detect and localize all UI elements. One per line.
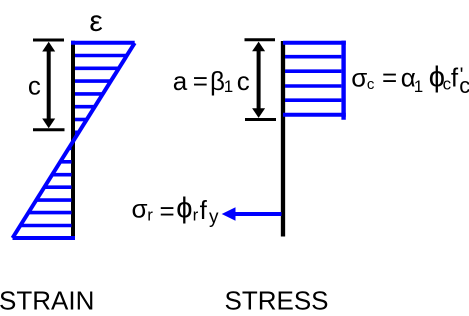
svg-text:f: f xyxy=(200,195,208,225)
strain diagram: vertical section line xyxy=(71,41,75,237)
rebar force arrow (blue, pointing left) xyxy=(222,207,282,221)
svg-text:1: 1 xyxy=(224,77,233,96)
strain hatch lines (tension, below neutral axis) xyxy=(20,148,71,225)
svg-text:a: a xyxy=(173,66,188,96)
svg-text:r: r xyxy=(193,206,199,225)
a dimension arrow (double headed) xyxy=(245,40,277,120)
svg-text:c: c xyxy=(28,71,41,101)
label a = beta1 c xyxy=(173,66,250,96)
svg-text:β: β xyxy=(210,66,225,96)
label sigma_r = phi_r f_y xyxy=(132,192,220,228)
svg-text:STRESS: STRESS xyxy=(225,286,329,316)
svg-text:ϕ: ϕ xyxy=(176,192,192,224)
stress diagram: vertical section line xyxy=(281,41,285,237)
strain diagonal line xyxy=(13,43,135,238)
svg-text:σ: σ xyxy=(132,193,148,223)
svg-text:y: y xyxy=(209,207,219,228)
stress block bottom edge xyxy=(283,113,346,117)
stress block hatch lines xyxy=(285,57,341,100)
stress block right edge xyxy=(341,41,345,120)
svg-text:STRAIN: STRAIN xyxy=(0,286,94,316)
strain triangle top edge xyxy=(71,41,135,45)
svg-text:c: c xyxy=(367,76,375,93)
label sigma_c = alpha1 phi_c f'c xyxy=(351,62,469,98)
stress block outline (top, right, bottom edges) xyxy=(283,41,346,45)
strain triangle bottom edge xyxy=(13,236,76,240)
svg-text:σ: σ xyxy=(351,63,367,93)
svg-text:f: f xyxy=(451,63,459,93)
svg-text:ε: ε xyxy=(89,5,102,38)
svg-text:c: c xyxy=(459,73,469,98)
svg-text:1: 1 xyxy=(414,77,423,96)
svg-text:=: = xyxy=(193,66,208,96)
svg-text:r: r xyxy=(147,206,153,225)
svg-text:=: = xyxy=(382,63,397,93)
strain hatch lines (compression, above neutral axis) xyxy=(75,56,127,133)
c dimension arrow (double headed) xyxy=(33,40,65,130)
svg-text:=: = xyxy=(160,196,175,226)
svg-text:c: c xyxy=(237,66,250,96)
